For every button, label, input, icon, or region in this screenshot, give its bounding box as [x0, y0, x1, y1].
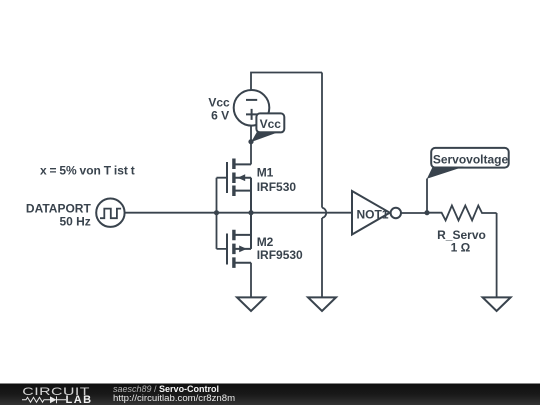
inverter NOT1 [352, 191, 401, 235]
footer text line 1: saesch89 / Servo-Control [113, 384, 219, 394]
label M2 IRF9530 [257, 235, 303, 262]
svg-text:50 Hz: 50 Hz [59, 215, 90, 229]
wire M2 source to ground [250, 263, 252, 298]
label DATAPORT 50 Hz [26, 201, 92, 228]
svg-text:Vcc: Vcc [260, 117, 282, 131]
svg-text:LAB: LAB [66, 394, 93, 405]
label R_Servo 1 Ω [437, 228, 486, 255]
svg-text:IRF530: IRF530 [257, 180, 297, 194]
svg-text:R_Servo: R_Servo [437, 228, 486, 242]
square wave source DATAPORT [96, 199, 124, 227]
svg-text:http://circuitlab.com/cr8zn8m: http://circuitlab.com/cr8zn8m [113, 393, 235, 404]
wire middle vertical branch lower segment [321, 218, 323, 297]
svg-text:IRF9530: IRF9530 [257, 248, 303, 262]
CircuitLab logo: CIRCUIT [22, 384, 90, 397]
wire top rail (Vcc- to middle ground branch) [251, 73, 322, 91]
wire middle vertical branch upper segment [321, 73, 323, 208]
svg-text:1 Ω: 1 Ω [451, 241, 471, 255]
svg-text:M2: M2 [257, 235, 274, 249]
footer text line 2: url [113, 393, 235, 404]
ground (middle branch) [308, 297, 336, 311]
wire servo flag to junction [426, 179, 428, 213]
wire resistor to ground [496, 213, 498, 297]
transistor M2 IRF9530 (PMOS) [227, 213, 251, 268]
wire V1+ to M1 drain [250, 126, 252, 165]
annotation text: x = 5% von T ist t [40, 164, 135, 178]
svg-text:M1: M1 [257, 165, 274, 179]
label V1 value: Vcc 6 V [208, 95, 230, 122]
CircuitLab logo: LAB [66, 394, 93, 405]
wire gate bus [217, 178, 228, 249]
footer bar background [0, 384, 540, 405]
svg-text:Servovoltage: Servovoltage [433, 153, 509, 167]
resistor R_Servo [427, 206, 497, 221]
ground (under M2) [237, 297, 265, 311]
node servo junction [424, 210, 429, 215]
ground (under R_Servo) [483, 297, 511, 311]
voltage source V1 [234, 90, 270, 126]
wire hop over main wire [322, 208, 326, 218]
node output junction (M1/M2 to NOT1) [248, 210, 253, 215]
svg-text:Vcc: Vcc [208, 95, 230, 109]
svg-text:x = 5% von T ist t: x = 5% von T ist t [40, 164, 135, 178]
svg-text:NOT1: NOT1 [357, 207, 389, 221]
node gate junction [214, 210, 219, 215]
svg-text:6 V: 6 V [211, 109, 229, 123]
wire main (DATAPORT to NOT1 input) [125, 212, 352, 214]
wire NOT1 output to servo node [401, 212, 427, 214]
node Vcc (junction dot) [248, 139, 253, 144]
label M1 IRF530 [257, 165, 297, 194]
net flag Vcc (callout) [251, 113, 284, 142]
net flag Servovoltage (callout) [427, 148, 509, 179]
svg-text:DATAPORT: DATAPORT [26, 201, 92, 215]
transistor M1 IRF530 (NMOS) [227, 159, 251, 213]
CircuitLab logo: wire-resistor-diode-LAB row [22, 396, 66, 403]
